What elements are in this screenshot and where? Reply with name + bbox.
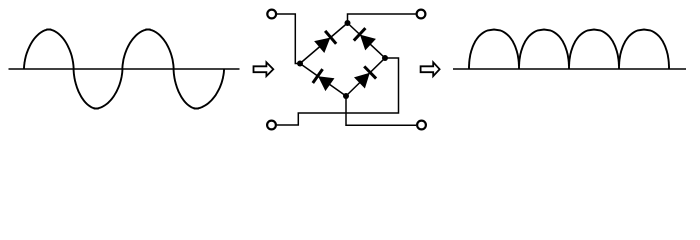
junction node: top (+) — [345, 20, 351, 26]
bridge diamond edge: top node to right node — [348, 23, 386, 58]
terminal: bottom-left input — [267, 121, 276, 130]
diode D3 (- bottom node to AC left node, lower-left arm) — [313, 69, 335, 91]
terminal: top-right output — [417, 10, 426, 19]
arrow (bridge to output) — [421, 62, 440, 76]
junction node: right (AC) — [382, 55, 388, 61]
output full-wave rectified waveform (four humps) — [469, 30, 669, 70]
bridge diamond edge: left node to top node — [300, 23, 348, 64]
wire: top-left terminal to AC left node — [277, 14, 300, 64]
diode D1 (AC left node to + top node, upper-left arm) — [314, 31, 336, 53]
wire: bottom node to bottom-right terminal — [346, 96, 416, 125]
input waveform axis (left baseline) — [9, 68, 240, 70]
wire: top node to top-right terminal — [348, 14, 416, 23]
diode D2 (AC right node to + top node, upper-right arm) — [354, 28, 376, 50]
bridge diamond edge: left node to bottom node — [300, 64, 346, 97]
terminal: top-left input — [267, 10, 276, 19]
output waveform axis (right baseline) — [453, 68, 686, 70]
bridge diamond edge: bottom node to right node — [346, 58, 385, 96]
diode D4 (- bottom node to AC right node, lower-right arm) — [354, 66, 376, 88]
junction node: left (AC) — [297, 61, 303, 67]
junction node: bottom (-) — [343, 93, 349, 99]
terminal: bottom-right output — [417, 121, 426, 130]
input AC sine wave (two cycles) — [24, 30, 224, 109]
arrow (input to bridge) — [254, 62, 274, 76]
wire: bottom-left terminal to AC right node — [277, 58, 399, 125]
